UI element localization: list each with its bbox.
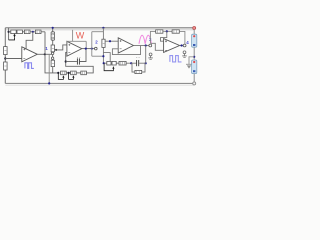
resistor column box1 bbox=[51, 32, 54, 40]
wire stage1 pot column from top rail bbox=[52, 28, 54, 32]
terminal wiper circle upper bbox=[51, 52, 53, 54]
resistor chain3 box1 bbox=[107, 61, 111, 65]
wire rail to stage3 input resistor bbox=[102, 28, 104, 39]
op-amp U1 bbox=[22, 47, 38, 62]
wire battery2 to bottom rail bbox=[193, 74, 195, 82]
node bottom chain left junction bbox=[57, 72, 59, 74]
wire chain h-i bbox=[76, 72, 81, 74]
wire capacitor to op2 output bbox=[80, 49, 86, 62]
terminal triangle output connector bbox=[95, 47, 98, 50]
terminal wiper circle lower bbox=[51, 57, 53, 59]
node x103.4 y56.2 bbox=[102, 55, 104, 57]
node left divider midpoint bbox=[4, 57, 6, 59]
terminal ground (gray, on bottom rail) bbox=[193, 82, 196, 85]
ground pin below square connector bbox=[183, 51, 186, 54]
op-amp U3 bbox=[118, 38, 133, 53]
node op2 output junction 1 bbox=[85, 48, 87, 50]
resistor RG (bottom chain) bbox=[61, 71, 67, 75]
terminal square output connector bbox=[183, 44, 186, 47]
battery B1 bbox=[192, 34, 197, 47]
node stage1 chain left junction bbox=[8, 31, 10, 33]
wire resistor bottom to chain bbox=[102, 47, 104, 63]
resistor RI (bottom chain, striped) bbox=[81, 71, 87, 75]
wire column gap1 bbox=[52, 40, 54, 45]
ground chassis arrow bbox=[186, 63, 192, 65]
wire op2 output bbox=[82, 48, 95, 50]
node op1 output junction bbox=[44, 53, 46, 55]
wire stage4 plus input path bbox=[161, 31, 167, 41]
potentiometer wiper arrow G bbox=[58, 73, 63, 80]
wire op1 feedback vertical to top chain bbox=[44, 32, 46, 55]
wire rail to battery1 bbox=[193, 30, 195, 35]
wire RC right node up to op3 output bbox=[145, 46, 147, 64]
wire minus node to capacitor bbox=[66, 61, 77, 63]
wire divider tap to op1 plus input bbox=[26, 32, 33, 49]
resistor stage4 chain box1 bbox=[156, 30, 163, 33]
wire tap down to ground rail bbox=[48, 55, 50, 84]
terminal sine output connector bbox=[149, 44, 152, 47]
wire stage4 minus input path bbox=[150, 43, 163, 50]
wire op1 output down to bottom chain bbox=[45, 54, 58, 73]
waveform label square wave (op4 output, blue) bbox=[170, 56, 182, 62]
wire potA wiper link bbox=[9, 37, 15, 40]
resistor RH (bottom chain) bbox=[71, 71, 77, 75]
node chain3 right dot bbox=[130, 62, 132, 64]
potentiometer wiper arrow into column box2 bbox=[54, 49, 56, 51]
wire loop rectangle around stage3 input resistor bbox=[92, 31, 104, 33]
node bottom chain mid junction bbox=[68, 72, 70, 74]
wire op3 feedback loop bbox=[112, 46, 140, 55]
resistor RB (top chain) bbox=[17, 30, 22, 34]
wire op3 output bbox=[134, 45, 149, 47]
wire battery1 to battery2 bbox=[193, 47, 195, 60]
node stage4 chain mid junction bbox=[166, 30, 168, 32]
resistor RC (top chain, striped) bbox=[24, 30, 30, 34]
wire bottom rail shadow bbox=[5, 84, 194, 86]
wire stage1 top chain baseline bbox=[9, 31, 45, 33]
resistor stage4 chain box2 bbox=[172, 30, 179, 33]
resistor column box3 bbox=[51, 60, 54, 66]
resistor RE (left divider upper) bbox=[4, 47, 8, 55]
potentiometer wiper arrow A (points down) bbox=[13, 35, 15, 38]
resistor stage3 input (vertical) bbox=[102, 39, 105, 47]
resistor RF (left divider lower) bbox=[4, 62, 8, 70]
capacitor C2 (parallel RC) bbox=[136, 60, 138, 66]
wire sine node to stage4 chain bbox=[150, 31, 155, 43]
op-amp U2 bbox=[67, 41, 82, 56]
capacitor C1 (integrator) bbox=[76, 58, 78, 64]
potentiometer wiper arrow chain3 bbox=[104, 63, 113, 70]
svg-text:W: W bbox=[76, 31, 85, 41]
wire op2 hysteresis frame right vertical bbox=[85, 41, 87, 48]
wire op2 hysteresis frame horizontal bbox=[67, 40, 86, 42]
wire op2 plus input wiper path bbox=[56, 45, 67, 50]
node top chain mid junction bbox=[32, 31, 34, 33]
resistor R parallel (below cap) bbox=[131, 63, 135, 72]
wire between circles bbox=[52, 55, 54, 57]
wire left edge vertical bbox=[4, 28, 6, 84]
node op3 plus input junction bbox=[109, 40, 111, 42]
wire chain right to op2 minus loop bbox=[66, 52, 94, 73]
waveform label square wave (op1 output, blue) bbox=[25, 63, 34, 69]
node op2 minus node bbox=[65, 60, 67, 62]
node top rail junction x103.4 bbox=[102, 27, 104, 29]
wire top rail shadow bbox=[5, 29, 194, 31]
wire chain g-h bbox=[66, 72, 70, 74]
wire stage3 bottom chain bbox=[103, 62, 136, 64]
node RC right junction bbox=[145, 62, 147, 64]
battery B2 bbox=[192, 60, 197, 74]
terminal positive supply (red, on top rail) bbox=[193, 27, 196, 30]
resistor column box2 (pot body) bbox=[51, 45, 54, 52]
node chain left dot bbox=[103, 62, 105, 64]
resistor chain3 box2 (pot) bbox=[112, 61, 116, 65]
resistor RD (top chain feedback) bbox=[35, 30, 41, 34]
wire midpoint to chassis ground bbox=[189, 57, 194, 65]
wire top supply rail bbox=[5, 27, 194, 29]
wire op1 output bbox=[37, 53, 51, 55]
wire op2 hysteresis frame left vertical bbox=[72, 30, 74, 42]
wire column bottom to chain bbox=[52, 58, 54, 61]
node battery midpoint bbox=[193, 56, 195, 58]
op-amp U4 bbox=[164, 39, 180, 53]
wire op1 minus input bbox=[5, 58, 22, 60]
wire jog from resistor bottom to chain gap bbox=[103, 53, 110, 62]
wire bottom ground rail bbox=[5, 82, 194, 84]
node op3 output junction bbox=[145, 44, 147, 46]
node ground rail junction x49.2 bbox=[48, 82, 50, 84]
wire op4 output bbox=[180, 45, 184, 47]
wire cap right to node bbox=[139, 62, 146, 64]
wire chain right feedback to output connector bbox=[179, 31, 185, 44]
resistor RA (top chain) bbox=[11, 30, 16, 34]
wire chain box1-box2 bbox=[163, 30, 172, 32]
ground pin below sine connector bbox=[149, 53, 152, 56]
wire op3 plus input bbox=[105, 40, 118, 42]
node op4 output junction bbox=[181, 44, 183, 46]
resistor chain3 box3 (striped) bbox=[119, 61, 126, 65]
node top rail junction x52.7 bbox=[52, 27, 54, 29]
wire stage1 chain tap vertical x8.6 bbox=[8, 28, 10, 40]
potentiometer wiper arrow H bbox=[69, 73, 74, 80]
node op2 output junction 2 bbox=[91, 48, 93, 50]
waveform label sine wave (magenta) bbox=[139, 35, 151, 44]
